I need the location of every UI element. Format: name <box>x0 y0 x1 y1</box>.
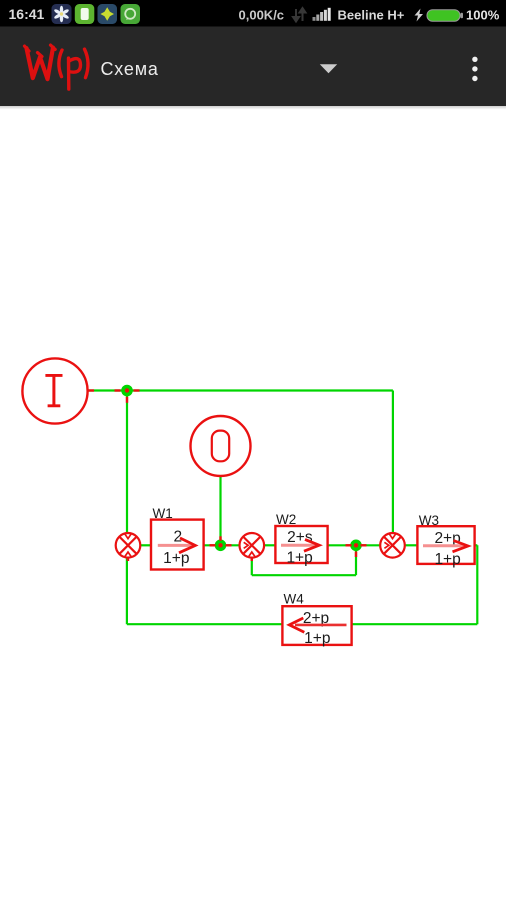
summator S1 <box>116 533 141 561</box>
svg-text:16:41: 16:41 <box>9 6 45 22</box>
block W2 <box>275 512 327 567</box>
wire: bottom feedback right segment to W4 <box>352 623 478 625</box>
app logo W(p) <box>25 45 89 89</box>
wire: W3 output stub <box>475 544 478 546</box>
wire: S3 to W3 <box>405 544 418 546</box>
wire: W1 to S2 through node B <box>204 544 240 546</box>
svg-text:W2: W2 <box>276 512 296 527</box>
wire: bottom-left rise to S1 <box>126 557 128 624</box>
node A junction <box>115 385 140 403</box>
block W4 <box>282 592 351 647</box>
svg-text:Beeline H+: Beeline H+ <box>338 8 405 23</box>
svg-text:W4: W4 <box>284 592 305 607</box>
wire: right drop to bottom feedback <box>476 545 478 624</box>
wire: source 0 down to node B <box>219 476 221 545</box>
status battery icon <box>427 10 463 21</box>
node C junction <box>346 540 367 558</box>
wire: W4 to bottom-left corner <box>127 623 283 625</box>
block W3 <box>417 513 474 568</box>
wire: S1 to W1 <box>140 544 151 546</box>
wire: top-right drop to summator S3 <box>392 391 394 534</box>
status bar background <box>0 0 506 27</box>
svg-text:1+p: 1+p <box>304 630 330 647</box>
summator S2 <box>240 533 265 561</box>
source 0 circle <box>191 416 251 476</box>
svg-text:1+p: 1+p <box>286 550 312 567</box>
wire: W2 loop rise to node C <box>355 545 357 575</box>
wire: S2 to W2 <box>264 544 275 546</box>
status charging bolt <box>415 9 424 22</box>
summator S3 <box>380 533 405 558</box>
wire: W2 to S3 through node C <box>328 544 381 546</box>
wire tip at source I output <box>89 389 95 391</box>
wire: S2 bottom drop (W2 loop) <box>251 557 253 575</box>
wire: node A down to summator S1 <box>126 391 128 534</box>
notification icon 3 (blue square yellow star) <box>98 4 118 24</box>
status signal bars icon <box>313 8 331 21</box>
svg-text:100%: 100% <box>466 8 500 23</box>
notification icon 4 (green messenger) <box>121 4 141 24</box>
source I circle <box>22 358 87 423</box>
svg-text:W1: W1 <box>153 506 173 521</box>
app bar overflow menu dots <box>472 57 477 82</box>
svg-text:Схема: Схема <box>101 59 159 79</box>
wire: source I to top-right corner <box>88 389 393 391</box>
app bar shadow <box>0 106 506 110</box>
wire: W2 loop bottom segment <box>252 574 356 576</box>
notification icon 1 (blue flower) <box>52 4 72 24</box>
svg-text:0,00K/c: 0,00K/c <box>239 7 285 22</box>
svg-text:2+s: 2+s <box>287 529 313 546</box>
svg-text:W3: W3 <box>419 513 439 528</box>
notification icon 2 (green battery app) <box>75 4 95 24</box>
status updown arrows icon <box>293 8 306 22</box>
svg-text:1+p: 1+p <box>163 550 189 567</box>
block W1 <box>151 506 204 570</box>
app bar dropdown caret <box>320 64 337 73</box>
app bar background <box>0 27 506 107</box>
svg-text:1+p: 1+p <box>434 551 460 568</box>
node B junction <box>210 536 232 551</box>
